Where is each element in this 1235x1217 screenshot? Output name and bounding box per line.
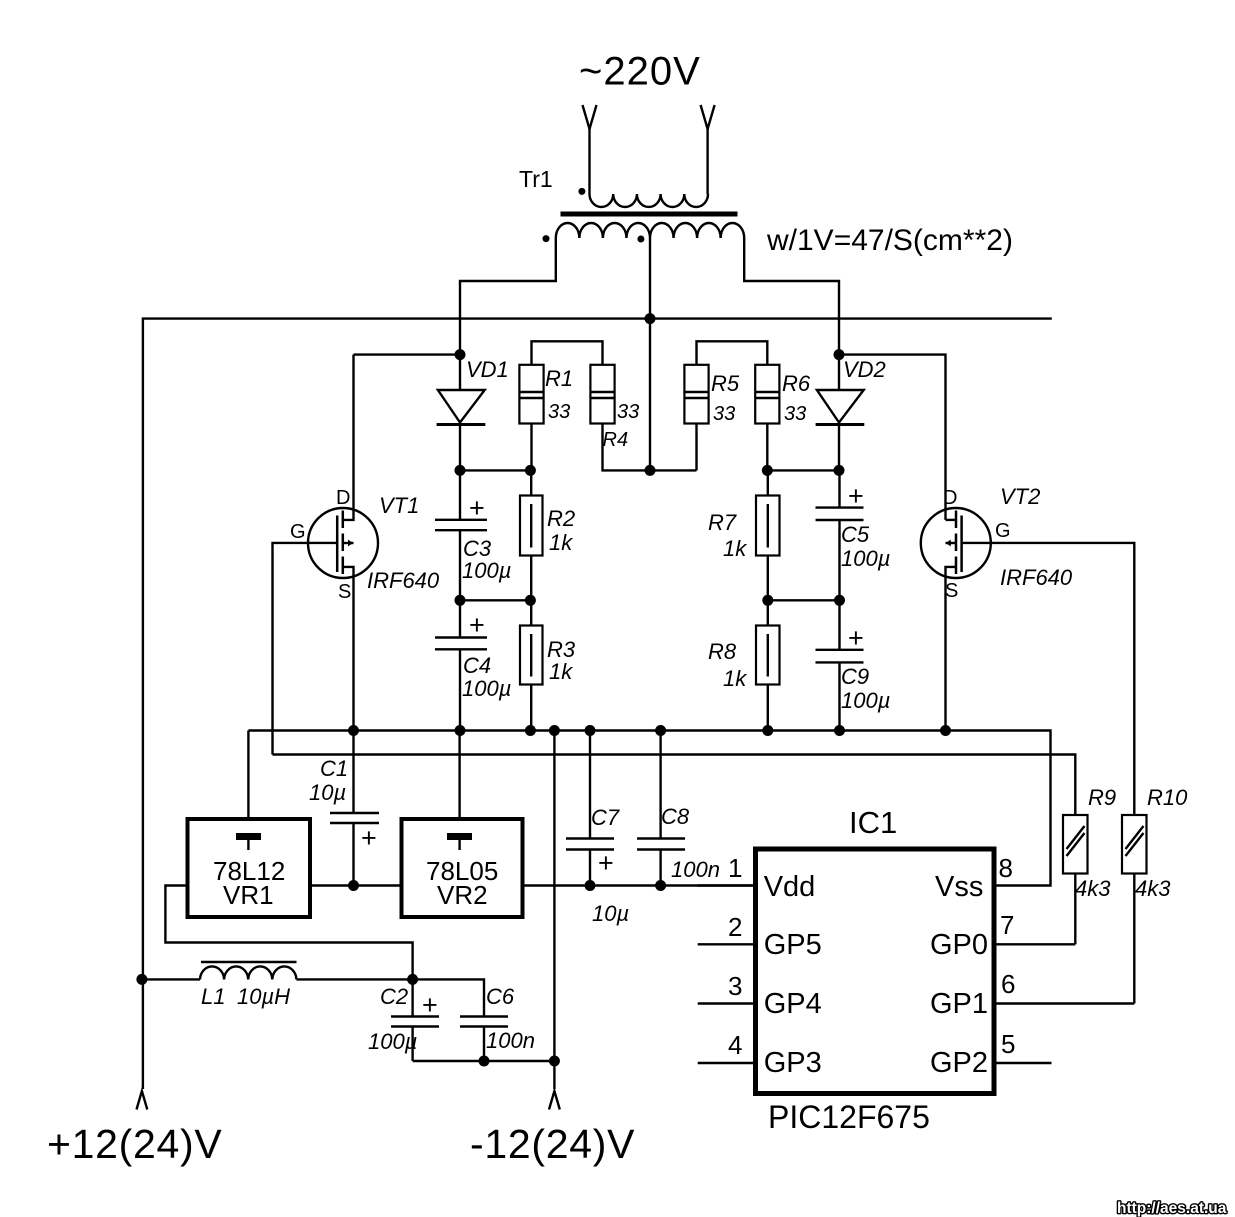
svg-text:6: 6 bbox=[1001, 969, 1015, 999]
wire VR2 out to IC Vdd bbox=[523, 884, 756, 886]
node -12V junction bbox=[549, 1056, 560, 1067]
resistor R9 bbox=[1063, 815, 1088, 944]
pin 2 stub GP5 bbox=[698, 943, 756, 945]
capacitor C9 bbox=[816, 600, 864, 730]
resistor R6 bbox=[755, 365, 779, 471]
wire VT1 drain to VD1 node bbox=[354, 353, 461, 355]
svg-text:1k: 1k bbox=[723, 666, 747, 691]
wire R6 bottom to VD2 cathode bbox=[767, 469, 839, 471]
svg-text:1k: 1k bbox=[723, 536, 747, 561]
node VD1 anode bbox=[455, 349, 466, 360]
svg-text:C4: C4 bbox=[463, 653, 491, 678]
resistor R2 bbox=[520, 470, 543, 600]
svg-text:~220V: ~220V bbox=[579, 50, 701, 94]
svg-text:IRF640: IRF640 bbox=[1000, 565, 1073, 590]
svg-text:C2: C2 bbox=[380, 984, 408, 1009]
svg-text:100µ: 100µ bbox=[368, 1029, 417, 1054]
terminal arrow primary right bbox=[701, 105, 715, 194]
transformer primary polarity dot bbox=[578, 188, 585, 195]
svg-text:VR1: VR1 bbox=[223, 880, 274, 910]
svg-text:R6: R6 bbox=[782, 371, 811, 396]
svg-text:+12(24)V: +12(24)V bbox=[47, 1121, 222, 1167]
regulator VR2 78L05 bbox=[402, 819, 523, 917]
svg-text:PIC12F675: PIC12F675 bbox=[768, 1099, 930, 1135]
pin 6 stub GP1 bbox=[994, 1002, 1134, 1004]
node C9 bottom on bus bbox=[834, 725, 845, 736]
svg-text:R10: R10 bbox=[1147, 785, 1188, 810]
wire center tap down bbox=[649, 238, 651, 470]
transistor VT2 bbox=[921, 508, 991, 731]
svg-text:33: 33 bbox=[784, 403, 806, 425]
diode VD1 bbox=[437, 355, 486, 471]
svg-text:2: 2 bbox=[728, 912, 742, 942]
svg-text:+: + bbox=[598, 848, 614, 878]
transformer core bar bbox=[561, 212, 738, 217]
svg-text:10µ: 10µ bbox=[309, 780, 346, 805]
node +12V input junction bbox=[136, 974, 147, 985]
svg-text:10µ: 10µ bbox=[592, 901, 629, 926]
svg-text:Vss: Vss bbox=[935, 871, 983, 903]
svg-text:Tr1: Tr1 bbox=[519, 166, 553, 192]
svg-text:3: 3 bbox=[728, 971, 742, 1001]
node VT1 source on bus bbox=[348, 725, 359, 736]
node R3 bottom on bus bbox=[525, 725, 536, 736]
node VD1 cathode bbox=[455, 465, 466, 476]
wire VR1 out to VR2 in bbox=[310, 884, 402, 886]
capacitor C8 bbox=[637, 731, 685, 886]
node C5 bottom bbox=[834, 595, 845, 606]
node C7 on bus bbox=[585, 725, 596, 736]
svg-text:C1: C1 bbox=[320, 756, 348, 781]
svg-text:GP4: GP4 bbox=[764, 988, 822, 1020]
svg-text:D: D bbox=[943, 487, 957, 509]
watermark http://aes.at.ua bbox=[1117, 1200, 1227, 1217]
wire secondary right lead to VD2 bbox=[744, 238, 839, 355]
svg-text:C7: C7 bbox=[591, 805, 620, 830]
svg-text:R5: R5 bbox=[711, 371, 740, 396]
pin 4 stub GP3 bbox=[698, 1062, 756, 1064]
resistor R7 bbox=[756, 470, 780, 600]
node R7 bottom bbox=[762, 595, 773, 606]
svg-text:1k: 1k bbox=[549, 659, 573, 684]
svg-text:R2: R2 bbox=[547, 506, 575, 531]
svg-text:100µ: 100µ bbox=[462, 558, 511, 583]
svg-text:C5: C5 bbox=[841, 522, 870, 547]
diode VD2 bbox=[816, 355, 865, 471]
transistor VT1 bbox=[308, 355, 378, 731]
wire +12V rail bbox=[143, 319, 1052, 1089]
svg-text:w/1V=47/S(cm**2): w/1V=47/S(cm**2) bbox=[766, 224, 1013, 257]
node C1 bottom bbox=[348, 880, 359, 891]
wire VT2 gate bbox=[962, 543, 1135, 815]
resistor R10 bbox=[1122, 815, 1147, 1004]
node center tap bottom junction bbox=[645, 465, 656, 476]
svg-text:C9: C9 bbox=[841, 664, 869, 689]
capacitor C6 bbox=[460, 1017, 508, 1062]
node VT2 source on bus bbox=[940, 725, 951, 736]
svg-text:Vdd: Vdd bbox=[764, 871, 816, 903]
terminal arrow primary left bbox=[583, 105, 597, 194]
IC1 PIC12F675 box bbox=[756, 849, 995, 1094]
terminal arrow -12V bbox=[549, 1091, 560, 1110]
svg-text:IRF640: IRF640 bbox=[367, 568, 440, 593]
terminal arrow +12V bbox=[137, 1091, 148, 1110]
wire VR2 common stem bbox=[458, 731, 460, 820]
svg-text:+: + bbox=[361, 823, 377, 853]
svg-text:VD2: VD2 bbox=[843, 357, 886, 382]
svg-text:C6: C6 bbox=[486, 984, 515, 1009]
svg-text:7: 7 bbox=[1000, 910, 1014, 940]
svg-text:+: + bbox=[469, 610, 485, 640]
svg-text:S: S bbox=[338, 581, 351, 603]
node L1 output bbox=[407, 974, 418, 985]
pin 5 stub GP2 bbox=[994, 1062, 1052, 1064]
svg-text:+: + bbox=[422, 990, 438, 1020]
node VD2 anode bbox=[834, 349, 845, 360]
resistor R3 bbox=[520, 600, 543, 730]
wire VR1 input path from L1 node bbox=[165, 886, 412, 980]
capacitor C2 bbox=[391, 979, 439, 1061]
transformer Tr1 primary winding bbox=[590, 194, 709, 207]
node C7 bottom bbox=[585, 880, 596, 891]
capacitor C5 bbox=[816, 470, 864, 600]
svg-text:4k3: 4k3 bbox=[1135, 876, 1171, 901]
node R8 bottom on bus bbox=[762, 725, 773, 736]
svg-text:D: D bbox=[336, 487, 350, 509]
svg-text:R1: R1 bbox=[545, 366, 573, 391]
svg-text:C8: C8 bbox=[661, 804, 690, 829]
svg-text:VR2: VR2 bbox=[437, 880, 488, 910]
transformer Tr1 secondary winding bbox=[556, 223, 744, 238]
svg-text:+: + bbox=[469, 493, 485, 523]
svg-text:33: 33 bbox=[713, 403, 735, 425]
svg-text:10µH: 10µH bbox=[237, 984, 290, 1009]
wire -12V column bbox=[553, 731, 555, 1090]
pin 3 stub GP4 bbox=[698, 1002, 756, 1004]
wire R5-R6 top bracket bbox=[697, 341, 768, 365]
node C8 bottom bbox=[655, 880, 666, 891]
pin 1 stub Vdd bbox=[698, 884, 756, 886]
resistor R1 bbox=[519, 365, 543, 471]
secondary polarity dot center bbox=[637, 236, 644, 243]
svg-text:VT1: VT1 bbox=[379, 493, 419, 518]
node -12V column on bus bbox=[549, 725, 560, 736]
wire VD2 node to VT2 drain bbox=[839, 355, 946, 520]
svg-text:R8: R8 bbox=[708, 639, 737, 664]
node R1 bottom bbox=[525, 465, 536, 476]
svg-text:+: + bbox=[848, 623, 864, 653]
svg-text:100µ: 100µ bbox=[462, 676, 511, 701]
node C8 on bus bbox=[655, 725, 666, 736]
pin 7 stub GP0 bbox=[994, 943, 1075, 945]
svg-text:4: 4 bbox=[728, 1030, 742, 1060]
wire C2/C6 ground bbox=[413, 1060, 555, 1062]
resistor R5 bbox=[684, 365, 708, 471]
node R6 bottom bbox=[762, 465, 773, 476]
svg-text:100µ: 100µ bbox=[841, 688, 890, 713]
svg-text:GP2: GP2 bbox=[930, 1047, 988, 1079]
capacitor C7 bbox=[566, 731, 614, 886]
secondary polarity dot left bbox=[543, 235, 550, 242]
node C3 bottom bbox=[455, 595, 466, 606]
wire VR1 common stem bbox=[247, 731, 249, 820]
svg-text:33: 33 bbox=[548, 401, 570, 423]
node center tap on +12V rail bbox=[645, 313, 656, 324]
svg-text:+: + bbox=[848, 481, 864, 511]
capacitor C3 bbox=[435, 470, 487, 600]
svg-text:http://aes.at.ua: http://aes.at.ua bbox=[1117, 1200, 1227, 1217]
svg-text:GP0: GP0 bbox=[930, 929, 988, 961]
resistor R8 bbox=[756, 600, 780, 730]
svg-text:VD1: VD1 bbox=[466, 357, 509, 382]
svg-text:GP5: GP5 bbox=[764, 929, 822, 961]
regulator VR1 78L12 bbox=[188, 819, 311, 917]
svg-text:100n: 100n bbox=[486, 1028, 535, 1053]
svg-text:R9: R9 bbox=[1088, 785, 1116, 810]
svg-text:IC1: IC1 bbox=[849, 805, 897, 840]
svg-text:1k: 1k bbox=[549, 530, 573, 555]
svg-text:R4: R4 bbox=[603, 429, 629, 451]
svg-text:GP1: GP1 bbox=[930, 988, 988, 1020]
wire VD1 cathode to R1 node bbox=[460, 469, 530, 471]
wire R1-R4 top bracket bbox=[532, 341, 603, 365]
svg-text:33: 33 bbox=[617, 401, 639, 423]
svg-text:G: G bbox=[290, 521, 306, 543]
node C6 bottom bbox=[479, 1056, 490, 1067]
svg-text:4k3: 4k3 bbox=[1075, 876, 1111, 901]
wire VT1 gate bbox=[273, 543, 338, 755]
svg-text:S: S bbox=[945, 580, 958, 602]
wire R7-C5 node bbox=[768, 599, 840, 601]
wire gate bus to GP0 via R9 bbox=[273, 755, 1076, 816]
wire secondary left lead to VD1 bbox=[460, 238, 556, 355]
node R2 bottom bbox=[525, 595, 536, 606]
svg-text:G: G bbox=[995, 520, 1011, 542]
svg-text:100n: 100n bbox=[671, 857, 720, 882]
svg-text:1: 1 bbox=[728, 853, 742, 883]
wire C3-R2 node bbox=[460, 599, 530, 601]
capacitor C1 bbox=[330, 731, 379, 886]
svg-text:8: 8 bbox=[999, 853, 1013, 883]
capacitor C4 bbox=[435, 600, 487, 730]
svg-text:GP3: GP3 bbox=[764, 1047, 822, 1079]
resistor R4 bbox=[590, 365, 696, 471]
node VD2 cathode bbox=[834, 465, 845, 476]
svg-text:5: 5 bbox=[1001, 1029, 1015, 1059]
wire ground bus bbox=[248, 731, 1050, 886]
svg-text:100µ: 100µ bbox=[841, 546, 890, 571]
inductor L1 bbox=[142, 962, 484, 1017]
node C4 bottom on bus bbox=[455, 725, 466, 736]
svg-text:-12(24)V: -12(24)V bbox=[470, 1121, 635, 1167]
svg-text:L1: L1 bbox=[201, 984, 225, 1009]
svg-text:R7: R7 bbox=[708, 510, 737, 535]
svg-text:VT2: VT2 bbox=[1000, 484, 1040, 509]
